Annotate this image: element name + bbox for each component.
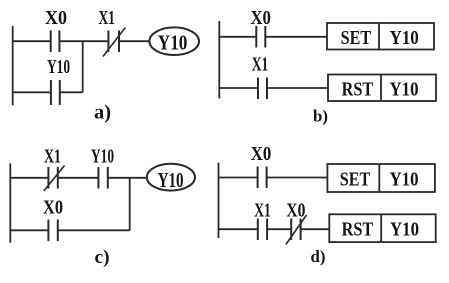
svg-text:Y10: Y10 [158, 31, 188, 55]
svg-text:X0: X0 [251, 143, 272, 165]
svg-text:Y10: Y10 [91, 146, 114, 168]
svg-text:SET: SET [341, 27, 372, 49]
svg-text:X0: X0 [250, 7, 271, 29]
svg-text:X1: X1 [252, 54, 269, 76]
svg-text:X1: X1 [44, 146, 61, 168]
svg-text:X0: X0 [286, 199, 305, 221]
svg-text:X1: X1 [98, 7, 115, 29]
svg-text:RST: RST [342, 219, 374, 241]
svg-text:Y10: Y10 [47, 56, 70, 78]
svg-text:b): b) [313, 107, 328, 126]
svg-text:Y10: Y10 [158, 168, 184, 192]
svg-text:Y10: Y10 [390, 27, 419, 49]
svg-text:X1: X1 [254, 199, 271, 221]
svg-text:Y10: Y10 [390, 169, 419, 191]
svg-text:X0: X0 [43, 197, 63, 219]
svg-text:RST: RST [342, 78, 374, 100]
svg-text:a): a) [94, 102, 111, 124]
svg-text:Y10: Y10 [390, 78, 419, 100]
svg-text:c): c) [95, 247, 110, 268]
svg-text:d): d) [311, 247, 326, 266]
svg-text:X0: X0 [45, 7, 67, 29]
svg-text:Y10: Y10 [390, 219, 419, 241]
svg-text:SET: SET [340, 169, 371, 191]
